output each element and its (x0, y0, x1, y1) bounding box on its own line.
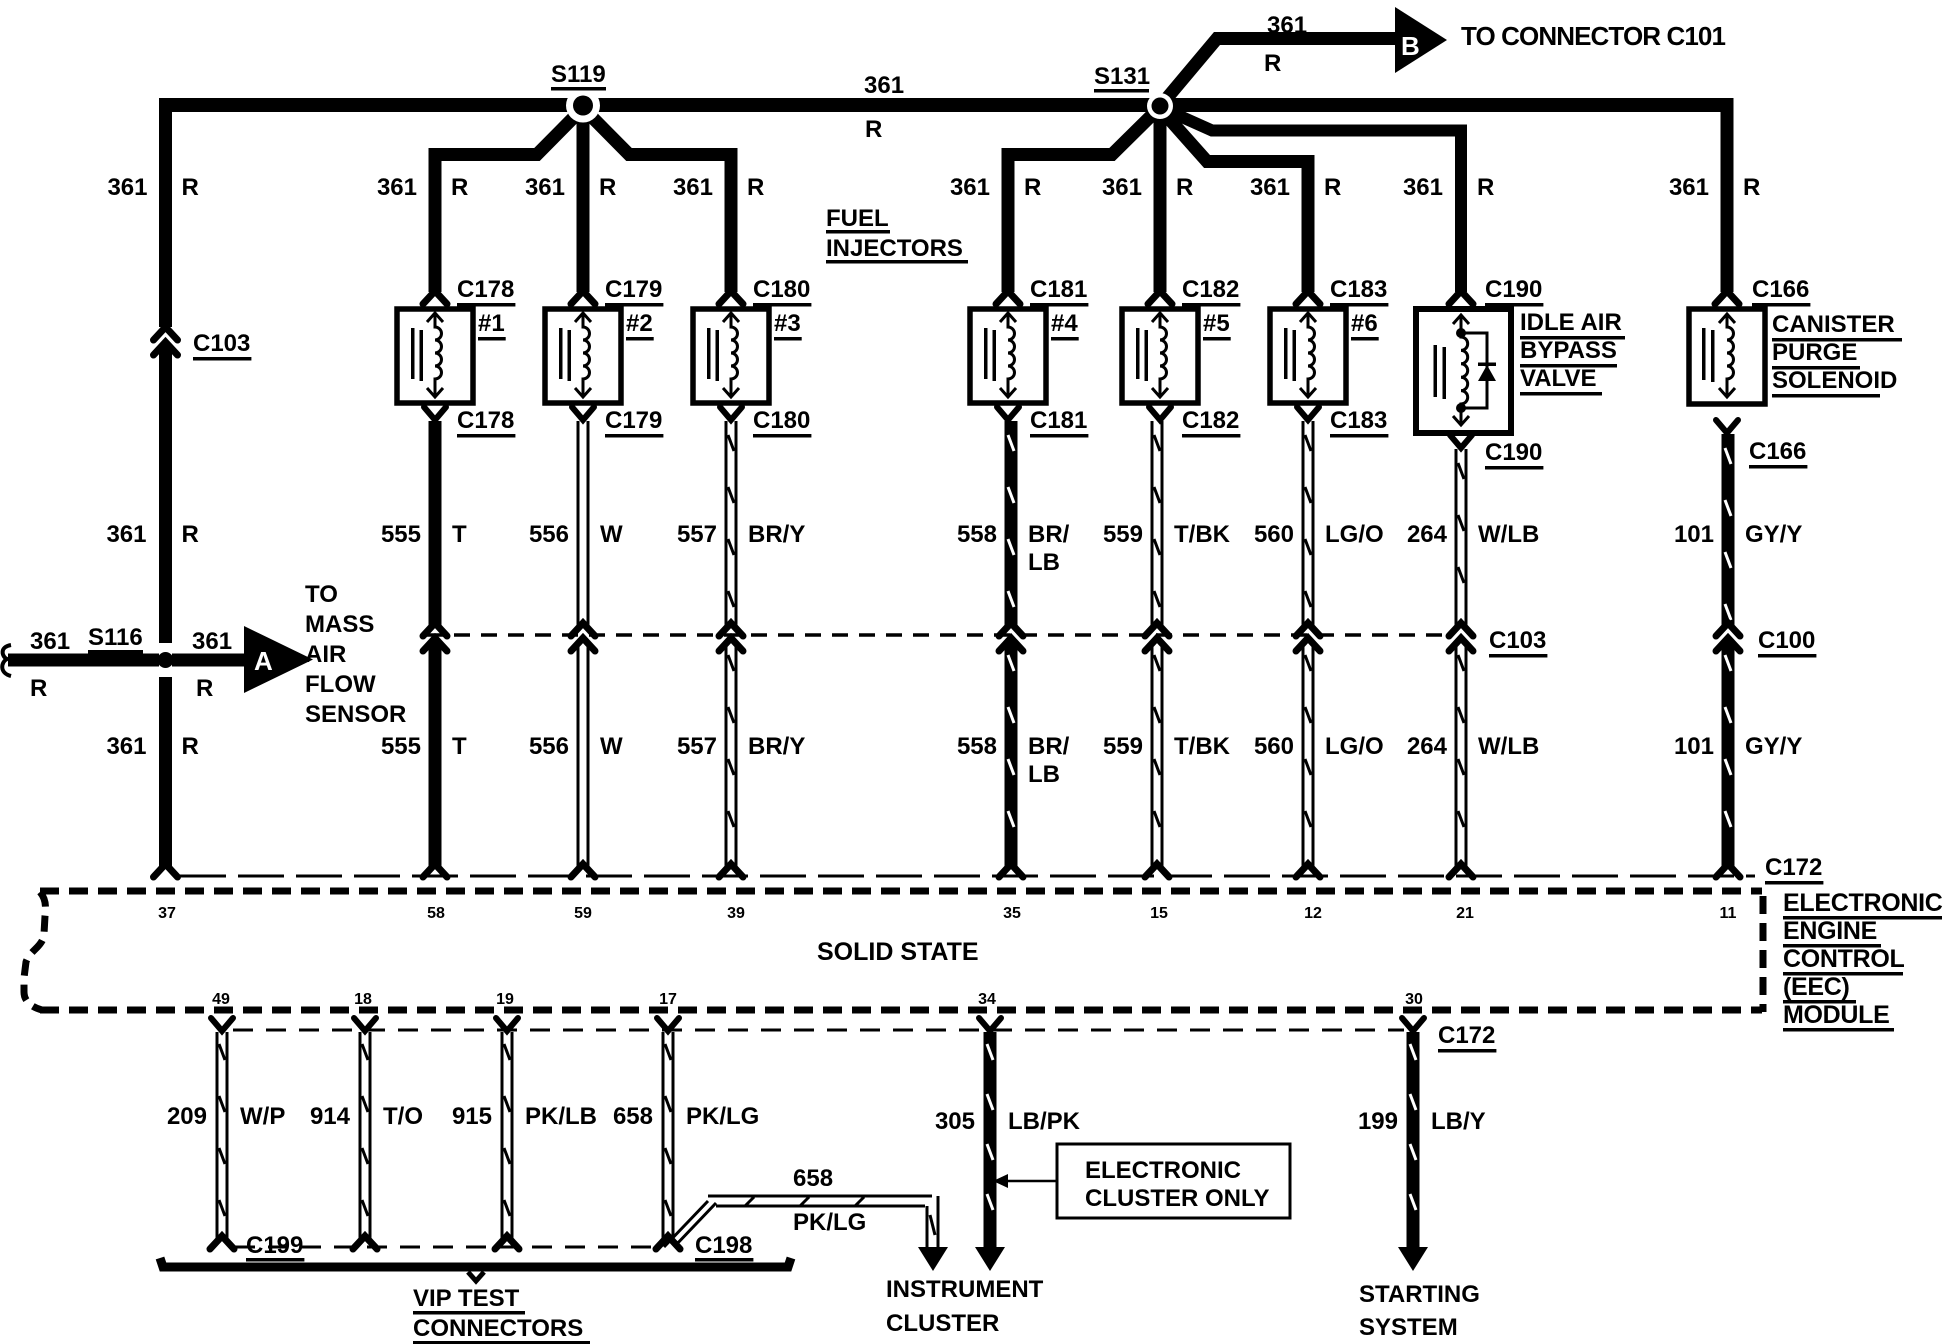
label 560 LG/O row2 (1254, 733, 1384, 760)
wire 199 LB/Y to starting system (1398, 1018, 1428, 1271)
connector C182 bottom half (1149, 407, 1171, 420)
svg-text:R: R (196, 675, 213, 702)
svg-text:361: 361 (1250, 174, 1290, 201)
svg-text:ELECTRONIC: ELECTRONIC (1085, 1157, 1241, 1184)
connector C180 bottom half (720, 407, 742, 420)
svg-text:LG/O: LG/O (1325, 521, 1384, 548)
label S131 (1094, 63, 1150, 93)
wire 556 W upper segment (577, 421, 590, 625)
svg-text:R: R (1176, 174, 1193, 201)
svg-text:R: R (1477, 174, 1494, 201)
svg-text:MODULE: MODULE (1783, 1001, 1890, 1029)
svg-text:39: 39 (727, 905, 745, 922)
svg-text:556: 556 (529, 733, 569, 760)
svg-text:12: 12 (1304, 905, 1322, 922)
wire 556 W lower segment (577, 641, 590, 867)
svg-text:58: 58 (427, 905, 445, 922)
svg-text:S116: S116 (88, 624, 143, 651)
label 658 PK/LG (613, 1103, 759, 1130)
svg-text:R: R (865, 116, 882, 143)
wire 560 LG/O lower segment (1302, 641, 1315, 867)
svg-text:C179: C179 (605, 407, 662, 434)
label #6 (1351, 310, 1379, 341)
svg-text:FLOW: FLOW (305, 671, 376, 698)
EEC pin numbers (bottom row) (212, 991, 1423, 1008)
svg-text:TO CONNECTOR C101: TO CONNECTOR C101 (1461, 21, 1725, 51)
svg-text:ENGINE: ENGINE (1783, 917, 1877, 945)
label 101 GY/Y row2 (1674, 733, 1802, 760)
label ELECTRONIC ENGINE CONTROL (EEC) MODULE (1783, 889, 1943, 1032)
wire 264 W/LB lower segment (1455, 641, 1468, 867)
connector line (dashed) below EEC (233, 1029, 1404, 1032)
svg-text:C181: C181 (1030, 407, 1087, 434)
label 264 W/LB row2 (1407, 733, 1539, 760)
svg-text:C183: C183 (1330, 407, 1387, 434)
wire 559 T/BK lower segment (1151, 641, 1164, 867)
label C178 (bottom) (457, 407, 515, 438)
svg-text:C182: C182 (1182, 407, 1239, 434)
svg-text:FUEL: FUEL (826, 205, 889, 232)
svg-text:BR/Y: BR/Y (748, 733, 805, 760)
svg-text:CANISTER: CANISTER (1772, 311, 1895, 338)
label C199 (246, 1232, 304, 1262)
label 305 LB/PK (935, 1108, 1081, 1135)
svg-text:(EEC): (EEC) (1783, 973, 1850, 1001)
labels 361 R on branch drops (107, 174, 1760, 201)
label 361 R on arrow B wire (1264, 12, 1307, 77)
svg-text:361: 361 (1102, 174, 1142, 201)
junction dot S119 (566, 89, 600, 123)
svg-text:#5: #5 (1203, 310, 1230, 337)
svg-text:361: 361 (107, 174, 147, 201)
brace VIP TEST CONNECTORS (160, 1258, 791, 1281)
svg-text:59: 59 (574, 905, 592, 922)
svg-text:18: 18 (354, 991, 372, 1008)
svg-text:CONTROL: CONTROL (1783, 945, 1905, 973)
connector end flare (210, 1236, 234, 1249)
svg-text:LB/PK: LB/PK (1008, 1108, 1081, 1135)
svg-text:C180: C180 (753, 407, 810, 434)
label #5 (1203, 310, 1231, 341)
svg-text:INJECTORS: INJECTORS (826, 235, 963, 262)
label 209 W/P (167, 1103, 285, 1130)
svg-text:STARTING: STARTING (1359, 1281, 1480, 1308)
svg-text:MASS: MASS (305, 611, 374, 638)
svg-text:361: 361 (106, 733, 146, 760)
svg-text:AIR: AIR (305, 641, 346, 668)
svg-text:C199: C199 (246, 1232, 303, 1259)
wire 555 T lower segment (429, 641, 442, 867)
svg-text:VIP TEST: VIP TEST (413, 1285, 520, 1312)
connector C172 end of wire 558 (999, 864, 1023, 877)
svg-text:PK/LB: PK/LB (525, 1103, 597, 1130)
wire 361 R left riser middle (159, 345, 172, 643)
svg-text:30: 30 (1405, 991, 1423, 1008)
svg-text:SENSOR: SENSOR (305, 701, 406, 728)
wire 560 LG/O upper segment (1302, 421, 1315, 625)
connector break at C100/C103 line for wire 560 (1296, 623, 1320, 651)
label 361 R mid-bus (864, 72, 904, 143)
connector C172 end of wire 559 (1145, 864, 1169, 877)
idle air bypass valve (1416, 309, 1511, 433)
svg-text:A: A (254, 646, 273, 676)
svg-text:34: 34 (978, 991, 996, 1008)
connector C181 top half (996, 291, 1020, 304)
svg-text:PK/LG: PK/LG (793, 1209, 866, 1236)
connector line C103 (dashed) (427, 633, 1450, 637)
svg-text:15: 15 (1150, 905, 1168, 922)
wire 361 R from S116 to arrow A (172, 654, 246, 667)
svg-text:SOLENOID: SOLENOID (1772, 367, 1897, 394)
svg-text:VALVE: VALVE (1520, 365, 1596, 392)
label 101 GY/Y row1 (1674, 521, 1802, 548)
label C179 (top) (605, 276, 663, 307)
label IDLE AIR BYPASS VALVE (1520, 309, 1625, 396)
connector break at C100/C103 line for wire 264 (1449, 623, 1473, 651)
label #4 (1051, 310, 1079, 341)
svg-text:19: 19 (496, 991, 514, 1008)
svg-text:C190: C190 (1485, 439, 1542, 466)
label C182 (bottom) (1182, 407, 1240, 438)
svg-text:SOLID STATE: SOLID STATE (817, 938, 979, 966)
label 199 LB/Y (1358, 1108, 1486, 1135)
label C178 (top) (457, 276, 515, 307)
wire 555 T upper segment (429, 421, 442, 625)
svg-text:W/P: W/P (240, 1103, 285, 1130)
svg-text:T/BK: T/BK (1174, 521, 1231, 548)
svg-text:35: 35 (1003, 905, 1021, 922)
label C172 (top) (1765, 854, 1823, 885)
svg-text:LB: LB (1028, 761, 1060, 788)
svg-text:361: 361 (1403, 174, 1443, 201)
connector break at C100/C103 line for wire 557 (719, 623, 743, 651)
svg-text:#6: #6 (1351, 310, 1378, 337)
svg-text:W/LB: W/LB (1478, 521, 1539, 548)
label 658 PK/LG (bend) (793, 1165, 866, 1236)
connector end flare (353, 1236, 377, 1249)
svg-text:#3: #3 (774, 310, 801, 337)
label C166 (bottom) (1749, 438, 1807, 469)
svg-text:C103: C103 (193, 330, 250, 357)
svg-text:559: 559 (1103, 733, 1143, 760)
label C190 (top) (1485, 276, 1543, 307)
svg-text:558: 558 (957, 521, 997, 548)
connector C166 bottom half (1716, 420, 1738, 433)
wire 101 GY/Y lower segment (1722, 641, 1735, 867)
svg-text:LB: LB (1028, 549, 1060, 576)
svg-text:21: 21 (1456, 905, 1474, 922)
label 361 R right of S116 (192, 628, 232, 702)
svg-text:557: 557 (677, 733, 717, 760)
label C181 (bottom) (1030, 407, 1088, 438)
label C100 (connector line) (1758, 627, 1816, 658)
label 556 W row2 (529, 733, 623, 760)
canister purge solenoid (1689, 309, 1765, 404)
svg-text:INSTRUMENT: INSTRUMENT (886, 1276, 1044, 1303)
svg-text:C190: C190 (1485, 276, 1542, 303)
svg-text:#1: #1 (478, 310, 505, 337)
label 559 T/BK row1 (1103, 521, 1231, 548)
label C198 (695, 1232, 753, 1262)
label 558 BR/ LB row1 (957, 521, 1070, 576)
label S116 (88, 624, 143, 654)
svg-text:BR/: BR/ (1028, 733, 1070, 760)
svg-text:R: R (30, 675, 47, 702)
svg-text:C172: C172 (1765, 854, 1822, 881)
svg-text:101: 101 (1674, 521, 1714, 548)
svg-text:C178: C178 (457, 276, 514, 303)
svg-text:555: 555 (381, 733, 421, 760)
svg-text:914: 914 (310, 1103, 351, 1130)
label S119 (551, 61, 606, 91)
svg-text:#4: #4 (1051, 310, 1078, 337)
svg-text:#2: #2 (626, 310, 653, 337)
svg-text:BR/Y: BR/Y (748, 521, 805, 548)
svg-text:GY/Y: GY/Y (1745, 733, 1802, 760)
svg-text:W: W (600, 521, 623, 548)
junction dot S116 (158, 652, 174, 668)
svg-text:361: 361 (1267, 12, 1307, 39)
off-page arrow B to connector C101 (1395, 7, 1447, 73)
svg-text:361: 361 (864, 72, 904, 99)
svg-text:264: 264 (1407, 521, 1448, 548)
label FUEL INJECTORS (826, 205, 968, 264)
svg-text:CLUSTER: CLUSTER (886, 1310, 999, 1337)
svg-text:T: T (452, 733, 467, 760)
svg-text:R: R (1024, 174, 1041, 201)
wire 558 BR//LB lower segment (1005, 641, 1018, 867)
wire 559 T/BK upper segment (1151, 421, 1164, 625)
svg-text:361: 361 (106, 521, 146, 548)
svg-text:C178: C178 (457, 407, 514, 434)
label 555 T row1 (381, 521, 467, 548)
svg-text:915: 915 (452, 1103, 492, 1130)
svg-text:T: T (452, 521, 467, 548)
label 361 R riser row1 (106, 521, 198, 548)
label INSTRUMENT CLUSTER (886, 1276, 1044, 1337)
connector C183 top half (1296, 291, 1320, 304)
svg-text:101: 101 (1674, 733, 1714, 760)
fuel injector #1 (397, 309, 473, 403)
svg-text:C103: C103 (1489, 627, 1546, 654)
svg-text:ELECTRONIC: ELECTRONIC (1783, 889, 1943, 917)
svg-text:199: 199 (1358, 1108, 1398, 1135)
label 556 W row1 (529, 521, 623, 548)
wire 558 BR//LB upper segment (1005, 421, 1018, 625)
label STARTING SYSTEM (1359, 1281, 1480, 1341)
label TO MASS AIR FLOW SENSOR (305, 581, 406, 728)
fuel injector #5 (1122, 309, 1198, 403)
connector break at C100/C103 line for wire 556 (571, 623, 595, 651)
EEC pin numbers (top row) (158, 905, 1736, 922)
wire 361 R left riser lower (159, 677, 172, 867)
svg-text:361: 361 (377, 174, 417, 201)
svg-text:C181: C181 (1030, 276, 1087, 303)
svg-text:R: R (182, 521, 199, 548)
connector C179 top half (571, 291, 595, 304)
label C182 (top) (1182, 276, 1240, 307)
svg-text:B: B (1401, 31, 1420, 61)
label 361 R riser row2 (106, 733, 198, 760)
label 915 PK/LB (452, 1103, 597, 1130)
connector break at C100/C103 line for wire 101 (1716, 623, 1740, 651)
label 264 W/LB row1 (1407, 521, 1539, 548)
svg-text:560: 560 (1254, 521, 1294, 548)
wire 557 BR/Y upper segment (725, 421, 738, 625)
svg-text:C166: C166 (1749, 438, 1806, 465)
wire 915 PK/LB (VIP test) (496, 1018, 518, 1239)
label C180 (top) (753, 276, 811, 307)
label C180 (bottom) (753, 407, 811, 438)
fuel injector #3 (693, 309, 769, 403)
wire 361 R from off-page left (S marker) (2, 645, 159, 676)
connector C190 bottom half (1450, 435, 1472, 448)
label #2 (626, 310, 654, 341)
connector C172 end of wire 557 (719, 864, 743, 877)
svg-text:W: W (600, 733, 623, 760)
svg-text:555: 555 (381, 521, 421, 548)
svg-text:BR/: BR/ (1028, 521, 1070, 548)
connector C178 top half (423, 291, 447, 304)
label C179 (bottom) (605, 407, 663, 438)
connector C166 top half (1715, 291, 1739, 304)
label C103 (left riser) (193, 330, 251, 361)
wire 361 R right drop to C166 (1721, 98, 1734, 292)
wire 658 PK/LG (VIP test) (657, 1018, 679, 1239)
svg-text:TO: TO (305, 581, 338, 608)
svg-text:R: R (451, 174, 468, 201)
label CANISTER PURGE SOLENOID (1772, 311, 1902, 398)
svg-text:361: 361 (192, 628, 232, 655)
label 555 T row2 (381, 733, 467, 760)
label #1 (478, 310, 506, 341)
connector break at C100/C103 line for wire 559 (1145, 623, 1169, 651)
svg-text:17: 17 (659, 991, 677, 1008)
svg-text:558: 558 (957, 733, 997, 760)
label SOLID STATE (817, 938, 979, 966)
svg-text:S131: S131 (1094, 63, 1150, 90)
svg-text:C172: C172 (1438, 1022, 1495, 1049)
connector C190 top half (1449, 291, 1473, 304)
label C181 (top) (1030, 276, 1088, 307)
svg-text:GY/Y: GY/Y (1745, 521, 1802, 548)
svg-text:658: 658 (613, 1103, 653, 1130)
connector C182 top half (1148, 291, 1172, 304)
label C166 (top) (1752, 276, 1810, 307)
svg-text:C180: C180 (753, 276, 810, 303)
wire 557 BR/Y lower segment (725, 641, 738, 867)
svg-text:361: 361 (673, 174, 713, 201)
svg-text:SYSTEM: SYSTEM (1359, 1314, 1458, 1341)
label C103 (connector line) (1489, 627, 1547, 658)
svg-text:37: 37 (158, 905, 176, 922)
fuel injector #4 (970, 309, 1046, 403)
svg-text:361: 361 (950, 174, 990, 201)
connector C172 end of wire 264 (1449, 864, 1473, 877)
connector end flare (495, 1236, 519, 1249)
svg-text:C198: C198 (695, 1232, 752, 1259)
wire 361 R left riser top corner (159, 98, 172, 327)
connector line C172 (dashed, above EEC) (180, 875, 1755, 878)
svg-text:305: 305 (935, 1108, 975, 1135)
svg-text:560: 560 (1254, 733, 1294, 760)
connector break at C100/C103 line for wire 558 (999, 623, 1023, 651)
fuel injector #6 (1270, 309, 1346, 403)
connector C172 end of wire 555 (423, 864, 447, 877)
label 560 LG/O row1 (1254, 521, 1384, 548)
electronic engine control (EEC) module dashed border (24, 891, 1763, 1012)
svg-text:C182: C182 (1182, 276, 1239, 303)
connector C178 bottom half (424, 407, 446, 420)
svg-text:T/O: T/O (383, 1103, 423, 1130)
label 557 BR/Y row2 (677, 733, 805, 760)
label 361 / S116 / R left of S116 (30, 628, 70, 702)
wire 101 GY/Y upper segment (1722, 434, 1735, 625)
svg-text:556: 556 (529, 521, 569, 548)
svg-text:11: 11 (1720, 905, 1737, 922)
label TO CONNECTOR C101 (1461, 21, 1725, 51)
svg-text:R: R (1264, 50, 1281, 77)
svg-text:T/BK: T/BK (1174, 733, 1231, 760)
label #3 (774, 310, 802, 341)
wire 361 R main bus (S119-S131) (159, 98, 1734, 112)
svg-text:C166: C166 (1752, 276, 1809, 303)
svg-text:W/LB: W/LB (1478, 733, 1539, 760)
svg-text:PURGE: PURGE (1772, 339, 1857, 366)
connector C181 bottom half (997, 407, 1019, 420)
junction dot S131 (1147, 93, 1173, 119)
splice S119 branches to injectors 1-3 (435, 108, 731, 292)
connector C179 bottom half (572, 407, 594, 420)
svg-text:R: R (1324, 174, 1341, 201)
label 914 T/O (310, 1103, 423, 1130)
svg-text:C179: C179 (605, 276, 662, 303)
label 558 BR/ LB row2 (957, 733, 1070, 788)
wire 914 T/O (VIP test) (354, 1018, 376, 1239)
connector break at C100/C103 line for wire 555 (423, 623, 447, 651)
svg-text:CLUSTER ONLY: CLUSTER ONLY (1085, 1185, 1269, 1212)
connector line C199/C198 (dashed) (235, 1246, 660, 1249)
connector C183 bottom half (1297, 407, 1319, 420)
svg-text:CONNECTORS: CONNECTORS (413, 1315, 583, 1342)
label VIP TEST CONNECTORS (413, 1285, 590, 1344)
wire 658 PK/LG bend to instrument cluster (656, 1196, 948, 1271)
svg-text:C183: C183 (1330, 276, 1387, 303)
fuel injector #2 (545, 309, 621, 403)
svg-text:559: 559 (1103, 521, 1143, 548)
svg-text:BYPASS: BYPASS (1520, 337, 1617, 364)
label C183 (top) (1330, 276, 1388, 307)
svg-text:557: 557 (677, 521, 717, 548)
label C172 (bottom) (1438, 1022, 1496, 1053)
svg-text:264: 264 (1407, 733, 1448, 760)
svg-text:LG/O: LG/O (1325, 733, 1384, 760)
wire 305 LB/PK to instrument cluster (975, 1018, 1005, 1271)
label C183 (bottom) (1330, 407, 1388, 438)
svg-text:R: R (182, 174, 199, 201)
svg-text:IDLE AIR: IDLE AIR (1520, 309, 1622, 336)
svg-text:R: R (182, 733, 199, 760)
wire 264 W/LB upper segment (1455, 449, 1468, 625)
svg-text:361: 361 (525, 174, 565, 201)
svg-text:209: 209 (167, 1103, 207, 1130)
svg-text:C100: C100 (1758, 627, 1815, 654)
svg-text:R: R (1743, 174, 1760, 201)
label 559 T/BK row2 (1103, 733, 1231, 760)
splice S131 branches (1008, 39, 1461, 293)
connector C172 end of wire 101 (1716, 864, 1740, 877)
svg-text:49: 49 (212, 991, 230, 1008)
